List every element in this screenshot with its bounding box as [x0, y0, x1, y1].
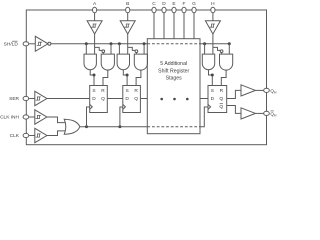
schmitt buffer B input	[120, 21, 135, 34]
pin terminal B	[126, 7, 130, 13]
wire FF1 Q to FF2 D	[107, 98, 123, 100]
wire B data branch to gate B2 bubble	[128, 47, 135, 50]
wire SH/LD stub to gate B1	[118, 44, 120, 54]
FF1 clock edge-trigger symbol	[90, 104, 93, 109]
wire CLK pin to buffer U4	[29, 135, 35, 137]
ellipsis dot 2	[173, 98, 176, 101]
svg-text:R: R	[220, 88, 224, 94]
junction SH/LD to gate B1	[118, 42, 121, 45]
gate B2 inverted-input bubble	[135, 50, 138, 53]
wire CLK INH buffer to OR gate G1 input	[47, 117, 67, 123]
FF2 clock edge-trigger symbol	[123, 104, 126, 109]
schmitt buffer U3 (CLK INH)	[35, 110, 47, 124]
wire additional-stages box to FF8 D	[200, 98, 208, 100]
output buffer U5 (QH)	[241, 85, 255, 96]
wire gate B2 output to FF2 R	[136, 70, 141, 86]
svg-text:D: D	[92, 96, 96, 102]
junction node S2	[126, 74, 129, 77]
pin terminal H	[211, 7, 215, 13]
pin terminal SH/LD	[23, 42, 29, 46]
svg-text:H: H	[211, 1, 215, 7]
pin terminal D	[162, 7, 166, 13]
junction clock rail to FF2	[118, 125, 121, 128]
AND gate H2 (reset)	[220, 54, 233, 70]
pin terminal QH	[264, 88, 270, 92]
svg-text:SH/LD: SH/LD	[4, 42, 19, 48]
svg-text:CLK INH: CLK INH	[0, 115, 19, 121]
flip-flop FF8 (stage H)	[208, 86, 227, 113]
svg-text:E: E	[172, 1, 175, 7]
wire H buffer output to gate H1 input	[212, 34, 214, 54]
schmitt inverter U1 (SH/LD)	[35, 36, 48, 51]
FF8 clock edge-trigger symbol	[208, 104, 211, 109]
gate H2 inverted-input bubble	[220, 50, 223, 53]
junction node S8	[211, 74, 214, 77]
svg-text:S: S	[211, 88, 214, 94]
AND gate A2 (reset)	[101, 54, 114, 70]
wire SH/LD stub to gate H2	[228, 44, 230, 54]
wire gate H1 output to FF8 S	[209, 70, 213, 86]
output buffer U6 (QH-bar)	[241, 108, 255, 119]
AND gate A1 (set)	[84, 54, 96, 70]
wire A data branch to gate A2 bubble	[95, 47, 102, 50]
svg-text:Q: Q	[101, 96, 105, 102]
gate A2 inverted-input bubble	[102, 50, 105, 53]
inverter U1 output bubble	[48, 42, 51, 45]
wire pin E to additional-stages box	[173, 13, 175, 39]
svg-text:Q: Q	[219, 104, 223, 110]
wire FF8 Q to output buffer U5	[227, 90, 241, 98]
wire pin C to additional-stages box	[153, 13, 155, 39]
schmitt buffer A input	[87, 21, 102, 34]
junction SH/LD to gate A1	[85, 42, 88, 45]
svg-text:CLK: CLK	[10, 133, 20, 139]
pin terminal E	[172, 7, 176, 13]
svg-text:D: D	[125, 96, 129, 102]
svg-text:F: F	[183, 1, 186, 7]
svg-text:Shift Register: Shift Register	[158, 68, 189, 74]
wire bubble to gate B2	[135, 53, 137, 55]
pin terminal C	[152, 7, 156, 13]
wire SER buffer to FF1 D input	[47, 98, 90, 100]
block: 5 additional shift register stages	[147, 39, 200, 134]
wire B buffer output to gate B1 input	[127, 34, 129, 54]
wire SH/LD stub to gate B2	[143, 44, 145, 54]
pin terminal A	[93, 7, 97, 13]
wire H data branch to gate H2 bubble	[213, 47, 220, 50]
junction clock rail to FF1	[85, 125, 88, 128]
pin terminal CLK	[23, 133, 29, 137]
wire gate A1 output to FF1 S	[90, 70, 94, 86]
AND gate B2 (reset)	[134, 54, 147, 70]
svg-text:D: D	[211, 96, 215, 102]
wire pin G to additional-stages box	[193, 13, 195, 39]
schmitt buffer H input	[205, 21, 220, 34]
wire clock riser to FF2 CP	[120, 107, 123, 127]
OR gate G1 (clock gating)	[64, 119, 80, 134]
wire clock riser to FF1 CP	[87, 107, 90, 127]
wire CLK buffer to OR gate G1 input	[47, 131, 67, 136]
wire SH/LD net to stage H gates	[200, 43, 229, 45]
junction SH/LD to gate H2	[228, 42, 231, 45]
pin terminal G	[192, 7, 196, 13]
junction SH/LD to gate H1	[203, 42, 206, 45]
pin terminal QH-bar	[264, 111, 270, 115]
svg-text:5 Additional: 5 Additional	[160, 61, 187, 67]
pin terminal CLK INH	[23, 115, 29, 119]
svg-text:Stages: Stages	[166, 76, 183, 82]
flip-flop FF1 (stage A)	[90, 86, 108, 113]
svg-text:S: S	[92, 88, 95, 94]
wire gate H2 output to FF8 R	[221, 70, 226, 86]
wire pin H to buffer	[212, 13, 214, 21]
svg-text:A: A	[93, 1, 97, 7]
svg-text:QH: QH	[270, 88, 277, 94]
wire buffer U5 to pin QH	[255, 89, 263, 91]
svg-text:Q: Q	[134, 96, 138, 102]
wire clock riser to FF8 CP	[200, 107, 208, 127]
wire FF2 Q to additional-stages box	[140, 98, 147, 100]
svg-text:R: R	[134, 88, 138, 94]
wire FF8 Q-bar to output buffer U6	[227, 106, 241, 114]
wire gate A2 output to FF1 R	[103, 70, 108, 86]
ellipsis dot 3	[186, 98, 189, 101]
AND gate B1 (set)	[117, 54, 129, 70]
wire pin B to buffer	[127, 13, 129, 21]
wire buffer U6 to pin QH-bar	[255, 112, 263, 114]
wire SH/LD stub to gate A2	[110, 44, 112, 54]
junction SH/LD to gate B2	[143, 42, 146, 45]
wire bubble to gate H2	[221, 53, 223, 55]
svg-text:SER: SER	[9, 96, 19, 102]
schmitt buffer U4 (CLK)	[35, 128, 47, 142]
pin terminal SER	[23, 96, 29, 100]
wire SH/LD net dashed through additional-stages box	[147, 43, 200, 45]
junction SH/LD to gate A2	[110, 42, 113, 45]
wire pin A to buffer	[94, 13, 96, 21]
wire CLK INH pin to buffer U3	[29, 116, 35, 118]
wire A buffer output to gate A1 input	[94, 34, 96, 54]
wire pin F to additional-stages box	[183, 13, 185, 39]
flip-flop FF2 (stage B)	[123, 86, 141, 113]
wire SH/LD stub to gate A1	[85, 44, 87, 54]
wire pin D to additional-stages box	[163, 13, 165, 39]
outer package boundary box	[26, 10, 266, 145]
svg-text:C: C	[152, 1, 156, 7]
schmitt buffer U2 (SER)	[35, 91, 47, 105]
wire SH/LD pin to inverter U1	[29, 43, 35, 45]
wire clock rail dashed through additional-stages box	[147, 126, 200, 128]
wire SER pin to buffer U2	[29, 98, 35, 100]
junction node S1	[93, 74, 96, 77]
svg-text:R: R	[101, 88, 105, 94]
wire bubble to gate A2	[102, 53, 104, 55]
svg-text:D: D	[162, 1, 166, 7]
svg-text:Q: Q	[219, 96, 223, 102]
wire clock rail from G1	[80, 126, 148, 128]
wire SH/LD stub to gate H1	[204, 44, 206, 54]
AND gate H1 (set)	[202, 54, 214, 70]
wire SH/LD net from U1 across stages A and B	[51, 43, 147, 45]
svg-text:B: B	[126, 1, 129, 7]
wire gate B1 output to FF2 S	[123, 70, 127, 86]
svg-text:QH: QH	[270, 111, 277, 117]
pin terminal F	[182, 7, 186, 13]
svg-text:S: S	[125, 88, 128, 94]
svg-text:G: G	[192, 1, 196, 7]
ellipsis dot 1	[160, 98, 163, 101]
